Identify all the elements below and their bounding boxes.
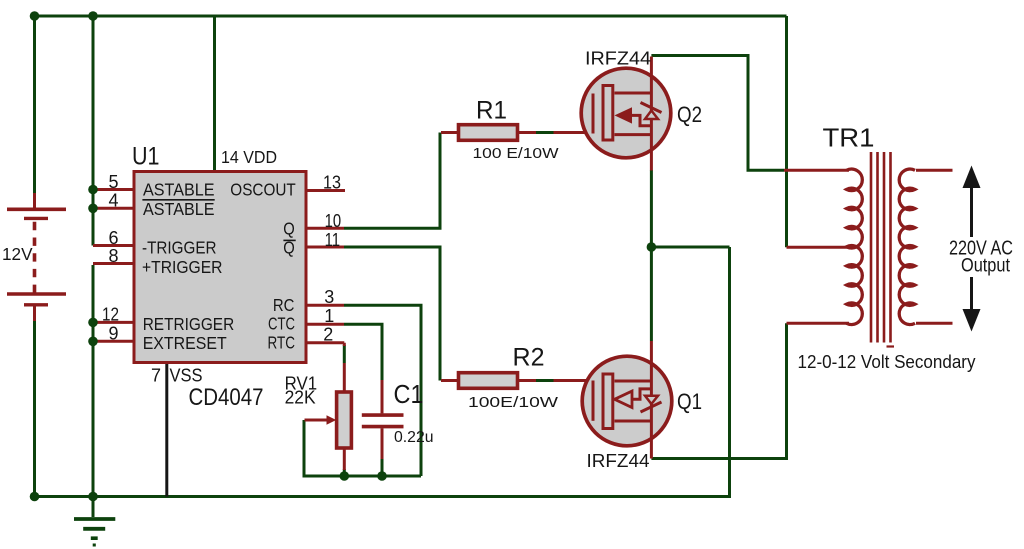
wire: vertical bus x=93 pins 8,12,9 to ground rail [92,265,95,497]
svg-text:2: 2 [323,325,333,345]
wire: pin 11 Qbar to R2 [344,247,440,381]
resistor R2 [441,373,593,389]
svg-text:VSS: VSS [170,366,203,386]
svg-text:IRFZ44: IRFZ44 [587,451,650,471]
svg-text:100 E/10W: 100 E/10W [473,145,560,162]
svg-text:7: 7 [151,365,161,385]
svg-text:1: 1 [324,306,334,326]
ground [74,497,115,546]
pin 2 red drop to RV1 [343,343,346,470]
node: pin9 [88,337,98,347]
wire: bottom ground rail [35,247,730,497]
primary top lead [784,169,849,172]
secondary top lead [916,169,953,172]
resistor R1 [441,125,593,141]
svg-text:OSCOUT: OSCOUT [230,180,296,200]
svg-text:R1: R1 [476,97,507,125]
svg-text:11: 11 [325,230,341,250]
svg-text:RETRIGGER: RETRIGGER [143,314,235,334]
svg-text:5: 5 [108,172,118,192]
wire: R2 to Q1 gate [536,379,555,382]
node: ground tap [88,492,98,502]
svg-text:6: 6 [108,228,118,248]
svg-text:9: 9 [108,324,118,344]
wire: Q2 drain to TR1 primary top [651,56,784,171]
wire: pin 1 CTC to C1 top [344,324,382,381]
svg-text:10: 10 [325,211,342,231]
transformer TR1 [784,152,953,343]
svg-text:3: 3 [324,287,334,307]
ic U1 CD4047 body [134,172,306,363]
overline of Qbar [283,239,295,241]
wire: timing sub-rail [304,420,421,476]
svg-text:IRFZ44: IRFZ44 [585,48,651,68]
svg-text:Q: Q [283,219,295,239]
svg-text:C1: C1 [394,379,424,409]
mosfet Q2 IRFZ44 [581,57,671,171]
primary winding [847,169,863,324]
wire: top rail right drop to TR1 center tap [785,16,788,247]
capacitor C1 0.22u [362,380,404,459]
svg-text:EXTRESET: EXTRESET [143,333,227,353]
node: pin4 [88,204,98,214]
wire: pin 10 Q to R1 [344,133,440,229]
svg-text:ASTABLE: ASTABLE [143,180,215,200]
node: C1 bottom [377,471,387,481]
mosfet Q1 IRFZ44 [582,341,672,459]
ic U1 pin numbers right [323,173,341,345]
ic U1 right pin stubs 13,10,11,3,1,2 [306,191,345,343]
svg-text:-TRIGGER: -TRIGGER [142,237,217,257]
svg-text:22K: 22K [285,387,316,407]
potentiometer RV1 22K [305,392,352,448]
node: pin5 [88,185,98,195]
wire: VDD pin 14 drop [213,16,216,173]
ic U1 pin names right [230,180,296,353]
node: RV1 bottom [340,471,350,481]
output arrow 220V AC [946,166,1016,332]
secondary winding [899,169,915,324]
primary bottom lead [787,322,850,325]
node: MOSFET midpoint [647,242,657,252]
svg-text:12: 12 [102,305,119,325]
wire: vertical bus x=93 to pins 5,4,6 [92,15,95,246]
svg-text:14 VDD: 14 VDD [221,147,277,167]
wire: top +12V rail [35,15,787,18]
ic U1 pin numbers left [102,172,119,344]
svg-text:TR1: TR1 [823,123,875,153]
svg-text:CTC: CTC [268,314,295,334]
core bottom tick [887,345,895,347]
ic U1 left pin stubs 5,4,6,8,12,9 [93,190,134,342]
secondary bottom lead [916,322,953,325]
svg-text:13: 13 [323,173,341,193]
wire: Q1 source to TR1 primary bottom [651,323,786,458]
svg-text:CD4047: CD4047 [189,384,264,411]
wire: pin 7 VSS black lead [165,361,168,497]
wire: midpoint node to bottom rail [651,246,729,249]
primary center tap lead [787,246,852,249]
svg-text:12-0-12 Volt Secondary: 12-0-12 Volt Secondary [798,351,977,372]
node: pin12 [88,318,98,328]
svg-text:4: 4 [108,191,118,211]
wire: C1 bottom link [381,458,384,476]
ic U1 pin names left [142,180,234,354]
wire: pin 3 RC down to timing rail [344,305,421,476]
node: x93 / top rail [88,11,98,21]
svg-text:100E/10W: 100E/10W [468,394,559,411]
svg-text:+TRIGGER: +TRIGGER [142,257,223,277]
svg-text:R2: R2 [513,343,545,371]
svg-text:ASTABLE: ASTABLE [143,199,215,219]
transformer core lines [871,152,891,343]
battery BT1 12V [7,193,66,321]
svg-text:RC: RC [273,295,295,315]
svg-text:8: 8 [108,246,118,266]
node: battery - / bottom rail [30,492,40,502]
svg-text:U1: U1 [132,143,160,171]
svg-text:12V: 12V [2,244,33,264]
svg-text:0.22u: 0.22u [394,429,434,446]
wire: Q2 source down to midpoint node [650,170,653,341]
wire: RV1 bottom link [343,469,346,476]
svg-text:Q1: Q1 [677,389,702,414]
svg-text:RTC: RTC [268,333,296,353]
svg-text:Output: Output [961,254,1010,276]
wire: battery top lead [33,15,36,197]
wire: R1 to Q2 gate [536,131,555,134]
node: battery + / top rail [30,11,40,21]
wire: pin 2 RTC short green link [343,345,346,363]
overline of second ASTABLE [142,199,214,201]
wire: battery bottom lead [33,320,36,497]
svg-text:Q2: Q2 [677,102,702,127]
